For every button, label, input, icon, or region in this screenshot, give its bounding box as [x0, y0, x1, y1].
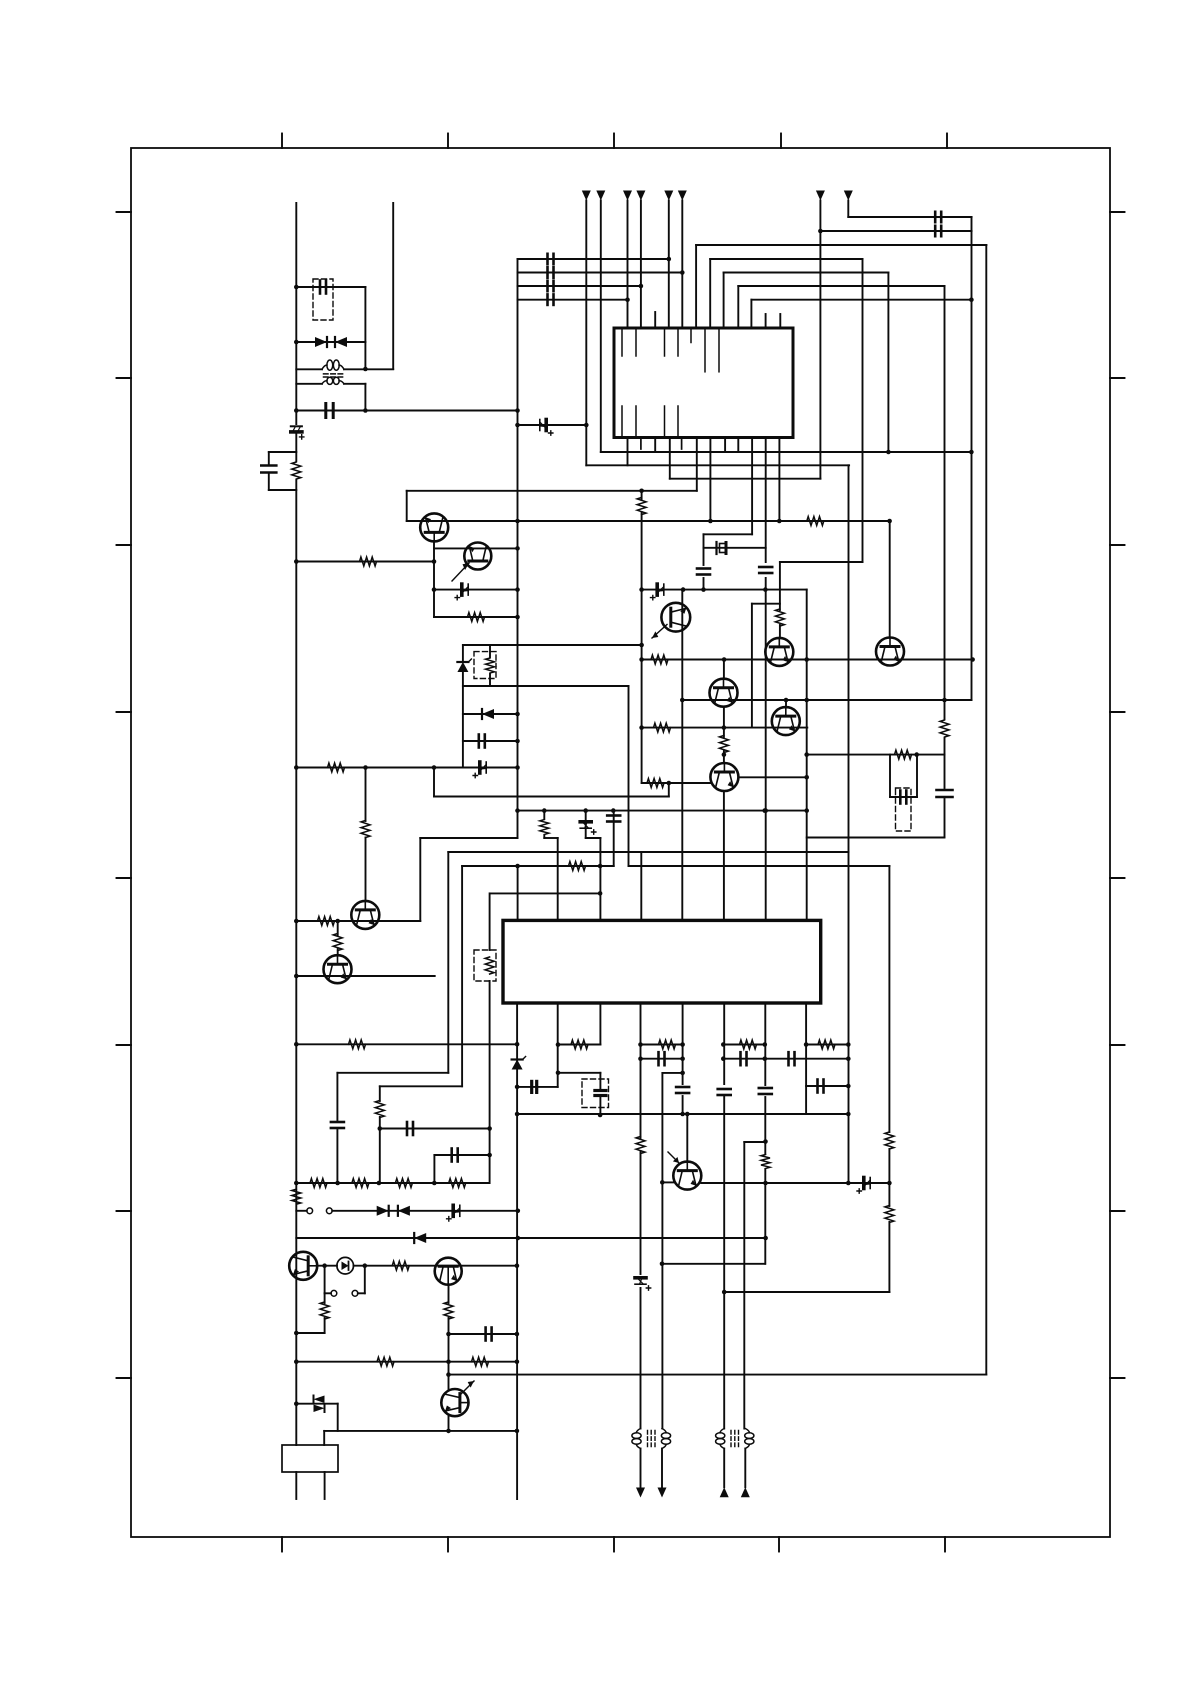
- transformer T1 primary winding: [322, 360, 344, 370]
- wire: [779, 625, 781, 638]
- wire: [448, 1416, 450, 1431]
- wire: [640, 1288, 642, 1429]
- wire: [723, 1449, 725, 1488]
- wire: [489, 674, 491, 686]
- wire: [629, 865, 890, 867]
- capacitor: [900, 791, 906, 804]
- bus wire: [517, 259, 519, 838]
- wire: [682, 1096, 684, 1114]
- wire: [447, 852, 449, 1073]
- wire: [704, 547, 766, 549]
- wire: [701, 1182, 889, 1184]
- input arrow 2: [596, 191, 605, 201]
- wire: [324, 1266, 326, 1294]
- wire: [269, 489, 297, 491]
- transformer T2 left winding: [632, 1429, 641, 1449]
- wire: [543, 811, 545, 819]
- wire: [295, 480, 297, 1445]
- wire: [670, 478, 821, 480]
- wire: [640, 852, 642, 920]
- wire: [599, 1005, 601, 1045]
- wire: [358, 1292, 365, 1294]
- switch contact: [352, 1290, 358, 1296]
- capacitor: [741, 1052, 747, 1065]
- wire: [585, 811, 587, 838]
- wire: [890, 796, 917, 798]
- wire: [682, 699, 971, 701]
- resistor: [719, 736, 728, 753]
- resistor: [395, 1179, 412, 1188]
- resistor: [292, 1189, 301, 1204]
- capacitor: [532, 1081, 537, 1092]
- resistor: [320, 1302, 329, 1319]
- switch contact: [326, 1208, 332, 1214]
- wire: [627, 201, 629, 329]
- wire: [462, 865, 614, 867]
- wire: [543, 835, 545, 838]
- wire: [337, 1072, 448, 1074]
- zener diode: [512, 1057, 526, 1070]
- capacitor: [759, 1088, 772, 1094]
- resistor: [328, 763, 345, 772]
- wire: [268, 473, 270, 491]
- capacitor: [261, 466, 276, 473]
- wire: [724, 438, 726, 453]
- photocoupler LED: [337, 1257, 354, 1274]
- resistor: [775, 609, 784, 626]
- wire: [640, 1151, 642, 1274]
- output arrow down 1: [636, 1488, 645, 1498]
- wire: [324, 1472, 326, 1499]
- wire: [491, 892, 600, 894]
- capacitor: [548, 267, 554, 278]
- resistor: [444, 1302, 453, 1319]
- transistor Q4: [324, 955, 352, 983]
- resistor: [485, 957, 494, 974]
- wire: [518, 810, 807, 812]
- wire: [704, 533, 753, 535]
- wire: [296, 920, 420, 922]
- wire: [296, 767, 517, 769]
- wire: [723, 273, 725, 329]
- resistor: [349, 1040, 366, 1049]
- zener diode: [457, 659, 471, 672]
- wire: [661, 1449, 663, 1489]
- wire: [433, 768, 435, 797]
- transformer T3 right winding: [745, 1429, 754, 1449]
- wire: [463, 685, 629, 687]
- resistor: [647, 779, 664, 788]
- wire: [518, 299, 628, 301]
- wire: [449, 1374, 987, 1376]
- wire: [640, 201, 642, 329]
- wire: [888, 1149, 890, 1206]
- bus wire: [516, 1005, 518, 1499]
- resistor: [449, 1179, 466, 1188]
- capacitor: [659, 1052, 665, 1065]
- Q13 variable arrow: [461, 1381, 474, 1394]
- wire: [888, 1222, 890, 1292]
- transistor Q13: [441, 1389, 468, 1416]
- resistor: [540, 820, 549, 835]
- wire: [780, 561, 863, 563]
- transistor Q1: [420, 513, 448, 541]
- wire: [641, 491, 643, 500]
- resistor: [310, 1179, 327, 1188]
- right edge tick marks: [1110, 212, 1125, 1378]
- resistor: [885, 1132, 894, 1149]
- wire: [686, 1114, 688, 1162]
- wire: [449, 1333, 517, 1335]
- wire: [888, 866, 890, 1132]
- wire: [296, 1043, 517, 1045]
- wire: [518, 424, 587, 426]
- wire: [971, 217, 973, 700]
- wire: [944, 799, 946, 837]
- wire: [848, 465, 850, 1183]
- wire: [765, 438, 767, 563]
- wire: [785, 700, 787, 708]
- wire: [709, 259, 711, 328]
- wire: [296, 1237, 765, 1239]
- transistor Q10: [673, 1162, 701, 1190]
- wire: [337, 1404, 339, 1431]
- capacitor: [331, 1122, 344, 1128]
- wire: [365, 838, 367, 902]
- wire: [336, 1073, 338, 1120]
- input arrow 1: [582, 191, 591, 201]
- IC U2: [503, 920, 821, 1003]
- wire: [268, 452, 270, 466]
- wire: [406, 491, 408, 521]
- wire: [862, 259, 864, 562]
- wire: [462, 672, 464, 768]
- wire: [662, 1181, 673, 1183]
- wire: [887, 273, 889, 453]
- wire: [944, 286, 946, 719]
- wire: [379, 1117, 381, 1183]
- wire: [296, 1332, 324, 1334]
- top edge tick marks: [282, 134, 947, 149]
- wire: [751, 438, 753, 535]
- capacitor: [818, 1080, 824, 1093]
- wire: [517, 1086, 558, 1088]
- wire: [295, 433, 297, 461]
- Q10 photo arrow: [668, 1152, 679, 1163]
- resistor: [885, 1206, 894, 1223]
- resistor: [333, 934, 342, 951]
- IC U1 top inner pin stubs: [622, 329, 719, 372]
- wire: [337, 949, 339, 955]
- wire: [723, 660, 725, 680]
- wire: [324, 1430, 517, 1432]
- wire: [586, 464, 849, 466]
- input arrow 8: [844, 191, 853, 201]
- wire: [318, 1265, 338, 1267]
- polarized capacitor: [455, 584, 468, 600]
- Q14 variable arrow: [652, 625, 667, 639]
- wire: [600, 201, 602, 453]
- wire: [296, 341, 365, 343]
- capacitor: [407, 1122, 413, 1135]
- wire: [806, 1085, 848, 1087]
- capacitor: [452, 1149, 458, 1162]
- resistor: [392, 1261, 409, 1270]
- wire: [364, 287, 366, 369]
- wire: [433, 1155, 435, 1183]
- wire: [463, 644, 642, 646]
- transistor Q6: [710, 679, 738, 707]
- bottom edge tick marks: [282, 1537, 945, 1552]
- wire: [751, 604, 753, 728]
- wire: [628, 686, 630, 866]
- wire: [364, 1266, 366, 1294]
- resistor: [375, 1101, 384, 1118]
- resistor: [318, 917, 335, 926]
- IC U1 pin stubs below bottom edge: [641, 438, 682, 450]
- capacitor: [697, 569, 710, 575]
- wire: [434, 616, 518, 618]
- wire: [462, 645, 464, 662]
- capacitor: [676, 1087, 689, 1093]
- wire: [805, 1005, 807, 1114]
- wire: [847, 201, 849, 218]
- wire: [661, 1073, 663, 1429]
- resistor: [651, 655, 668, 664]
- wire: [296, 1210, 307, 1212]
- wire: [641, 512, 643, 783]
- polarized capacitor: [580, 822, 596, 834]
- wire: [558, 1044, 601, 1046]
- wire: [295, 1472, 297, 1499]
- transistor Q5: [765, 638, 793, 666]
- transistor Q11: [289, 1252, 317, 1280]
- polarized capacitor: [651, 584, 664, 600]
- wire: [669, 438, 671, 479]
- wire: [703, 578, 705, 590]
- wire: [724, 272, 889, 274]
- wire: [336, 1130, 338, 1183]
- diode: [482, 709, 494, 719]
- transformer T2 core: [648, 1431, 656, 1448]
- wire: [739, 776, 808, 778]
- wire: [723, 1058, 848, 1060]
- wire: [461, 866, 463, 1086]
- wire: [296, 1361, 517, 1363]
- wire: [807, 837, 945, 839]
- diode pair: [314, 1396, 325, 1413]
- wire: [737, 438, 739, 453]
- polarized capacitor: [717, 542, 727, 554]
- resistor: [292, 462, 301, 479]
- wire: [944, 738, 946, 788]
- dashed outline: [474, 652, 496, 679]
- resistor: [636, 1137, 645, 1154]
- wire: [365, 768, 367, 822]
- wire: [764, 1005, 766, 1085]
- wire: [599, 1098, 601, 1116]
- wire: [764, 1169, 766, 1264]
- input arrow 3: [623, 191, 632, 201]
- wire: [518, 285, 641, 287]
- wire: [419, 838, 421, 921]
- capacitor: [320, 281, 326, 294]
- wire: [332, 1210, 518, 1212]
- wire: [434, 589, 518, 591]
- wire: [641, 1058, 683, 1060]
- wire: [681, 201, 683, 329]
- wire: [668, 201, 670, 329]
- wire: [448, 1285, 450, 1303]
- diode: [398, 1206, 410, 1216]
- resistor: [472, 1357, 489, 1366]
- polarized capacitor: [635, 1278, 651, 1290]
- wire: [585, 201, 587, 466]
- wire: [750, 300, 752, 328]
- wire: [738, 285, 944, 287]
- wire: [703, 534, 705, 565]
- wire: [557, 838, 559, 920]
- wire: [601, 451, 972, 453]
- wire: [764, 1097, 766, 1154]
- wire: [344, 368, 393, 370]
- resistor: [360, 557, 377, 566]
- wire: [296, 368, 322, 370]
- wire: [778, 438, 780, 522]
- wire: [463, 713, 518, 715]
- wire: [613, 811, 615, 866]
- wire: [599, 1073, 601, 1089]
- wire: [489, 645, 491, 657]
- wire: [296, 561, 434, 563]
- diode: [414, 1233, 426, 1243]
- output arrow down 2: [658, 1488, 667, 1498]
- wire: [295, 203, 297, 424]
- resistor: [468, 613, 485, 622]
- dashed outline: [582, 1079, 609, 1108]
- input arrow 4: [636, 191, 645, 201]
- bus wire: [517, 866, 519, 920]
- wire: [916, 755, 918, 797]
- wire: [889, 755, 891, 797]
- switch contact: [307, 1208, 313, 1214]
- wire: [695, 245, 697, 328]
- capacitor: [718, 1089, 731, 1095]
- wire: [344, 383, 365, 385]
- polarized capacitor: [857, 1178, 870, 1194]
- border frame: [131, 148, 1110, 1537]
- wire: [296, 1403, 337, 1405]
- resistor: [818, 1040, 835, 1049]
- wire: [642, 727, 808, 729]
- wire: [724, 1291, 889, 1293]
- wire: [448, 1318, 450, 1390]
- wire: [296, 1182, 488, 1184]
- wire: [448, 851, 848, 853]
- resistor: [571, 1040, 588, 1049]
- input arrow 6: [678, 191, 687, 201]
- resistor: [637, 498, 646, 515]
- wire: [379, 1086, 381, 1101]
- wire: [324, 1293, 326, 1303]
- wire: [586, 837, 601, 839]
- wire: [627, 438, 629, 466]
- wire: [820, 230, 971, 232]
- wire: [518, 272, 683, 274]
- wire: [354, 1265, 517, 1267]
- wire: [751, 299, 971, 301]
- wire: [696, 438, 698, 491]
- capacitor: [548, 281, 554, 291]
- transistor Q3: [351, 901, 379, 929]
- output arrow up 1: [720, 1487, 729, 1497]
- wire: [642, 659, 972, 661]
- IC U1 bottom inner pin stubs: [622, 406, 678, 436]
- capacitor: [595, 1091, 606, 1096]
- wire: [296, 410, 517, 412]
- resistor: [807, 517, 824, 526]
- wire: [723, 791, 725, 920]
- capacitor: [935, 212, 941, 222]
- IC U1: [614, 328, 793, 438]
- wire: [709, 438, 711, 522]
- wire: [296, 383, 322, 385]
- wire: [743, 1142, 745, 1429]
- polarized capacitor: [291, 426, 304, 439]
- wire: [517, 1113, 848, 1115]
- capacitor: [937, 790, 953, 797]
- resistor: [377, 1357, 394, 1366]
- wire: [557, 1005, 559, 1087]
- wire: [807, 754, 944, 756]
- wire: [337, 921, 339, 935]
- wire: [640, 1005, 642, 1139]
- resistor: [352, 1179, 369, 1188]
- transistor Q9: [876, 638, 904, 666]
- resistor: [654, 723, 671, 732]
- resistor: [361, 821, 370, 838]
- wire: [642, 782, 711, 784]
- capacitor: [326, 404, 333, 418]
- wire: [682, 1005, 684, 1084]
- wire: [489, 893, 491, 950]
- resistor: [761, 1155, 770, 1169]
- wire: [544, 837, 557, 839]
- resistor: [895, 750, 912, 759]
- capacitor: [486, 1328, 492, 1341]
- transistor Q8: [710, 763, 738, 791]
- wire: [518, 258, 669, 260]
- input arrow 5: [664, 191, 673, 201]
- wire: [779, 562, 781, 610]
- wire: [806, 590, 808, 920]
- wire: [463, 740, 518, 742]
- wire: [819, 201, 821, 479]
- polarized capacitor: [540, 420, 553, 436]
- wire: [723, 707, 725, 737]
- wire: [752, 603, 780, 605]
- dashed outline: [896, 788, 912, 831]
- wire: [710, 258, 862, 260]
- capacitor: [607, 816, 620, 822]
- wire: [642, 589, 807, 591]
- wire: [662, 1263, 765, 1265]
- wire: [765, 578, 767, 920]
- wire: [323, 1431, 325, 1445]
- resistor: [569, 862, 586, 871]
- capacitor: [548, 294, 554, 305]
- diode: [377, 1206, 389, 1216]
